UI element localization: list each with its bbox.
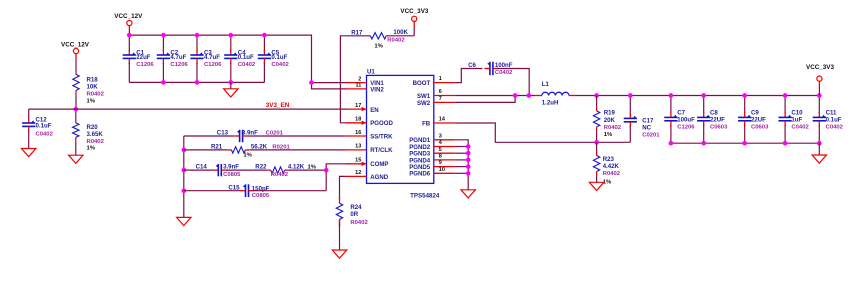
svg-text:R0402: R0402 <box>603 171 621 177</box>
svg-text:20K: 20K <box>604 117 616 124</box>
wire C15 to COMP riser <box>254 190 326 192</box>
capacitor C13 <box>234 135 240 137</box>
svg-text:PGOOD: PGOOD <box>370 120 393 127</box>
capacitor C6 <box>484 68 490 70</box>
inductor L1 <box>535 95 542 97</box>
svg-text:C0402: C0402 <box>826 124 844 130</box>
svg-text:6: 6 <box>439 89 442 95</box>
svg-text:18: 18 <box>355 117 361 123</box>
node PGND junction <box>466 151 471 156</box>
svg-text:C1206: C1206 <box>204 62 222 68</box>
svg-text:U1: U1 <box>367 69 375 76</box>
node top bus at C3 <box>195 33 200 38</box>
svg-text:SS/TRK: SS/TRK <box>370 134 393 141</box>
pin 6 SW1 <box>434 95 455 97</box>
svg-text:L1: L1 <box>542 81 550 88</box>
wire R20 to ground <box>75 141 77 155</box>
pin 9 PGND5 <box>434 166 455 168</box>
resistor R24 <box>339 197 341 200</box>
capacitor C7 <box>670 96 672 114</box>
node bottom bus C2 <box>161 80 166 85</box>
svg-text:BOOT: BOOT <box>413 80 431 87</box>
svg-text:R20: R20 <box>87 124 99 131</box>
wire PGND tie <box>455 140 468 190</box>
node top bus at C5 <box>262 33 267 38</box>
svg-text:R18: R18 <box>87 76 99 83</box>
svg-text:C14: C14 <box>196 164 208 171</box>
svg-text:1%: 1% <box>243 152 252 158</box>
capacitor C15 <box>240 190 246 192</box>
svg-text:1.2uH: 1.2uH <box>542 100 559 107</box>
svg-text:3V3_EN: 3V3_EN <box>266 102 290 109</box>
pin 16 SS/TRK <box>346 135 367 137</box>
capacitor C5 <box>263 35 265 51</box>
svg-text:C0805: C0805 <box>252 193 270 199</box>
node bottom bus junction <box>783 141 788 146</box>
wire analog ground rail <box>183 136 185 218</box>
pin 14 FB <box>434 122 455 124</box>
node PGND junction <box>466 158 471 163</box>
svg-text:22uF: 22uF <box>136 54 151 61</box>
capacitor C4 <box>230 35 232 51</box>
node bottom bus junction <box>669 141 674 146</box>
wire R17 to PGOOD <box>340 36 366 123</box>
resistor R20 <box>75 119 77 123</box>
pin 18 PGOOD <box>346 122 367 124</box>
capacitor C14 <box>213 169 219 171</box>
svg-text:10K: 10K <box>87 83 99 90</box>
wire R22 to COMP node <box>289 169 327 171</box>
wire AGND to R24 <box>340 176 346 199</box>
svg-text:VCC_3V3: VCC_3V3 <box>400 8 428 15</box>
ground under rail <box>177 217 191 225</box>
capacitor C2 <box>162 35 164 51</box>
svg-text:NC: NC <box>642 124 651 131</box>
resistor R21 <box>227 149 231 151</box>
svg-text:9: 9 <box>439 160 442 166</box>
node output rail at C8 <box>701 93 706 98</box>
pin 12 AGND <box>346 175 367 177</box>
wire 3V3_EN net <box>29 108 346 110</box>
node output rail at C9 <box>742 93 747 98</box>
svg-text:1: 1 <box>439 76 442 82</box>
wire SW1 net <box>455 95 536 97</box>
pin 7 SW2 <box>434 101 455 103</box>
resistor R18 <box>75 70 77 74</box>
svg-text:1%: 1% <box>87 145 96 151</box>
ground under C11 <box>812 155 826 163</box>
resistor R17 <box>366 35 370 37</box>
ground under R24 <box>332 250 346 258</box>
svg-text:SW2: SW2 <box>417 100 431 107</box>
svg-text:0.1uF: 0.1uF <box>826 116 842 123</box>
node R19 top <box>594 93 599 98</box>
node top bus at C4 <box>228 33 233 38</box>
svg-text:C9: C9 <box>751 109 759 116</box>
svg-text:R0402: R0402 <box>387 38 405 44</box>
svg-text:TPS54824: TPS54824 <box>410 193 440 200</box>
node top bus at C1 <box>127 33 132 38</box>
wire bus to ground <box>230 82 232 88</box>
ground under input caps <box>224 89 238 97</box>
node bottom bus C4 <box>228 80 233 85</box>
node bottom bus junction <box>701 141 706 146</box>
pin 10 PGND6 <box>434 172 455 174</box>
node PGND junction <box>466 164 471 169</box>
node C17 top <box>628 93 633 98</box>
svg-text:C13: C13 <box>217 129 229 136</box>
svg-text:1uF: 1uF <box>791 116 802 123</box>
svg-text:100nF: 100nF <box>495 62 513 69</box>
svg-text:12: 12 <box>355 170 361 176</box>
node SW junction 2 <box>527 93 532 98</box>
svg-text:R0402: R0402 <box>604 125 622 131</box>
node bottom bus C3 <box>195 80 200 85</box>
svg-text:2: 2 <box>358 76 361 82</box>
svg-text:C1206: C1206 <box>170 62 188 68</box>
svg-text:10: 10 <box>439 167 445 173</box>
pin 17 EN <box>346 108 367 110</box>
node FB junction <box>594 140 599 145</box>
svg-text:C0402: C0402 <box>238 62 256 68</box>
wire C15 row <box>184 190 240 192</box>
svg-text:R21: R21 <box>211 144 223 151</box>
node PGND junction <box>466 144 471 149</box>
svg-text:C1206: C1206 <box>677 124 695 130</box>
svg-text:R19: R19 <box>604 110 616 117</box>
svg-text:R23: R23 <box>603 156 615 163</box>
svg-text:R0402: R0402 <box>87 139 105 145</box>
svg-text:C0402: C0402 <box>271 62 289 68</box>
node rail COMP junction <box>181 168 186 173</box>
svg-text:11: 11 <box>355 83 361 89</box>
wire R18 to EN node <box>75 94 77 109</box>
capacitor C8 <box>703 96 705 114</box>
wire RT/CLK row <box>184 149 228 151</box>
wire PGND link <box>455 159 468 161</box>
svg-text:VCC_3V3: VCC_3V3 <box>806 64 834 71</box>
svg-text:1%: 1% <box>87 98 96 104</box>
node rail RT junction <box>181 148 186 153</box>
svg-text:C15: C15 <box>228 184 240 191</box>
svg-text:4.7uF: 4.7uF <box>204 54 220 61</box>
wire PGND link <box>455 152 468 154</box>
ground under R20 <box>69 155 83 163</box>
svg-text:RT/CLK: RT/CLK <box>370 147 393 154</box>
svg-text:R22: R22 <box>255 164 267 171</box>
resistor R22 <box>267 169 271 171</box>
wire bus to output ground <box>818 143 820 155</box>
node bottom bus junction <box>742 141 747 146</box>
svg-text:COMP: COMP <box>370 161 388 168</box>
svg-text:15: 15 <box>355 158 361 164</box>
pin 2 VIN1 <box>346 82 367 84</box>
pin 3 PGND1 <box>434 139 455 141</box>
svg-text:C10: C10 <box>791 109 803 116</box>
svg-text:3.65K: 3.65K <box>87 131 104 138</box>
svg-text:0.1uF: 0.1uF <box>238 54 254 61</box>
pin 13 RT/CLK <box>346 149 367 151</box>
capacitor C17 <box>629 96 631 115</box>
wire output bottom bus <box>671 142 819 144</box>
svg-text:C0603: C0603 <box>751 124 769 130</box>
svg-text:C1206: C1206 <box>136 62 154 68</box>
svg-text:C6: C6 <box>468 62 476 69</box>
wire FB net <box>455 123 631 142</box>
node output rail at C10 <box>783 93 788 98</box>
node VIN junction <box>309 80 314 85</box>
wire BOOT to C6 <box>455 69 483 83</box>
svg-text:C0805: C0805 <box>223 172 241 178</box>
wire R24 to ground <box>339 223 341 250</box>
resistor R19 <box>596 96 598 107</box>
wire R17 to VCC_3V3 <box>390 35 414 37</box>
svg-text:R0402: R0402 <box>87 91 105 97</box>
capacitor C9 <box>744 96 746 114</box>
wire input bottom bus <box>129 81 264 83</box>
svg-text:VIN2: VIN2 <box>370 86 384 93</box>
wire L1 to output rail <box>576 95 820 97</box>
svg-text:R0402: R0402 <box>350 220 368 226</box>
node COMP junction <box>324 168 329 173</box>
svg-text:C8: C8 <box>710 109 718 116</box>
svg-text:100uF: 100uF <box>677 116 695 123</box>
capacitor C11 <box>818 96 820 114</box>
wire COMP row <box>184 169 214 171</box>
wire PGND link <box>455 166 468 168</box>
capacitor C12 <box>28 118 30 124</box>
svg-text:3: 3 <box>439 133 442 139</box>
wire SS/TRK row <box>184 135 234 137</box>
svg-text:8: 8 <box>439 154 442 160</box>
svg-text:3.9nF: 3.9nF <box>242 129 258 136</box>
svg-text:7: 7 <box>439 96 442 102</box>
svg-text:17: 17 <box>355 103 361 109</box>
svg-text:VCC_12V: VCC_12V <box>114 13 143 20</box>
node rail C15 junction <box>181 188 186 193</box>
svg-text:14: 14 <box>439 117 446 123</box>
svg-text:1%: 1% <box>604 132 613 138</box>
svg-text:EN: EN <box>370 107 378 114</box>
svg-text:22UF: 22UF <box>751 116 766 123</box>
svg-text:C0603: C0603 <box>710 124 728 130</box>
svg-text:PGND6: PGND6 <box>409 171 431 178</box>
svg-text:C0402: C0402 <box>791 124 809 130</box>
svg-text:0.1uF: 0.1uF <box>271 54 287 61</box>
op-amp U1 TPS54824 body <box>367 75 434 183</box>
capacitor C1 <box>128 35 130 51</box>
node output rail at C11 <box>817 93 822 98</box>
wire EN node to R20 <box>75 109 77 119</box>
wire PGND link <box>455 172 468 174</box>
svg-text:C0402: C0402 <box>495 70 513 76</box>
svg-text:16: 16 <box>355 130 361 136</box>
svg-text:0R: 0R <box>350 211 358 218</box>
svg-text:C17: C17 <box>642 117 654 124</box>
svg-text:22UF: 22UF <box>710 116 725 123</box>
pin 8 PGND4 <box>434 159 455 161</box>
svg-text:100K: 100K <box>393 29 408 36</box>
node PGND junction <box>466 171 471 176</box>
pin 1 BOOT <box>434 82 455 84</box>
wire VIN2 feed <box>312 83 346 89</box>
svg-text:5: 5 <box>439 147 442 153</box>
ground under C12 <box>22 149 36 157</box>
svg-text:C11: C11 <box>826 109 837 116</box>
svg-text:4.7uF: 4.7uF <box>170 54 186 61</box>
pin 5 PGND3 <box>434 152 455 154</box>
resistor R23 <box>596 152 598 156</box>
wire C13 to SS/TRK pin <box>248 135 345 137</box>
svg-text:0.1uF: 0.1uF <box>36 123 52 130</box>
svg-text:VCC_12V: VCC_12V <box>61 41 90 48</box>
node output rail at C7 <box>669 93 674 98</box>
svg-text:AGND: AGND <box>370 174 389 181</box>
svg-text:13: 13 <box>355 144 361 150</box>
pin 4 PGND2 <box>434 146 455 148</box>
capacitor C3 <box>196 35 198 51</box>
node 3V3_EN junction at R18/R20 <box>73 107 78 112</box>
svg-text:1%: 1% <box>374 44 383 50</box>
node SW junction 1 <box>513 93 518 98</box>
node bottom bus junction <box>817 141 822 146</box>
wire PGND link <box>455 146 468 148</box>
svg-text:C7: C7 <box>677 109 685 116</box>
wire C6 to SW node <box>497 69 530 96</box>
pin 11 VIN2 <box>346 88 367 90</box>
ground under PGND <box>461 190 475 198</box>
ground under R23 <box>589 182 603 190</box>
node top bus at C2 <box>161 33 166 38</box>
svg-text:R24: R24 <box>350 204 362 211</box>
wire VCC_12V top bus <box>129 35 311 83</box>
svg-text:4.42K: 4.42K <box>603 163 620 170</box>
wire SW2 riser <box>455 96 515 103</box>
capacitor C10 <box>784 96 786 114</box>
wire VIN1 feed <box>312 82 346 84</box>
wire R21 to RT/CLK pin <box>249 149 345 151</box>
svg-text:R0402: R0402 <box>271 172 289 178</box>
wire COMP pin link <box>326 164 345 191</box>
svg-text:C0402: C0402 <box>36 132 54 138</box>
svg-text:C0201: C0201 <box>642 132 660 138</box>
pin 15 COMP <box>346 163 367 165</box>
svg-text:FB: FB <box>422 120 431 127</box>
wire C12 to ground <box>28 131 30 149</box>
wire C14 to R22 <box>226 169 267 171</box>
